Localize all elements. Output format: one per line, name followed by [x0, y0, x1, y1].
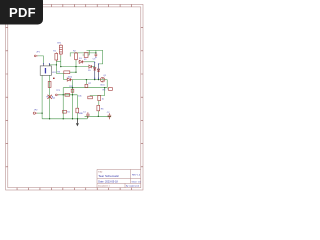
- wire box1 left stub: [83, 54, 85, 56]
- wire left bottom bus: [42, 118, 87, 120]
- wire row y94.8: [58, 94, 77, 96]
- label R1: [53, 50, 57, 52]
- svg-text:PDF: PDF: [9, 5, 36, 20]
- label TP1: [56, 90, 61, 92]
- diode D3 on pair-left: [94, 68, 96, 71]
- wire C3 drop: [95, 50, 97, 53]
- wire R2 bottom to mid bus: [75, 60, 77, 67]
- label JP1: [36, 51, 40, 53]
- wire R7 drop from base row: [85, 80, 87, 88]
- label Q1: [101, 75, 107, 87]
- label K1: [84, 59, 87, 61]
- wire left vertical from box: [41, 75, 43, 119]
- wire R1 bottom to battery bottom: [56, 61, 61, 63]
- wire right bottom bus: [85, 115, 111, 117]
- frame column ticks top/bottom: [17, 4, 132, 190]
- label R6: [101, 108, 105, 110]
- wire R3 right to mid bus junction: [70, 67, 76, 73]
- label row right: [78, 95, 82, 97]
- frame outer border: [6, 4, 143, 190]
- wire pin JP2 to left vertical: [37, 112, 42, 114]
- wire top right run: [87, 50, 103, 64]
- title block text: Title label: [98, 171, 103, 174]
- wire D1 run to pair-left top: [84, 61, 94, 63]
- svg-text:Sheet: 1/1: Sheet: 1/1: [132, 180, 142, 183]
- wire long base row through Q1: [72, 79, 107, 81]
- label Q2: [52, 97, 56, 99]
- wire box right pin up to R1: [49, 61, 63, 73]
- battery BT1: [59, 44, 62, 55]
- diode D1: [78, 60, 84, 63]
- wire bus link: [86, 116, 88, 119]
- title block text: REV cell: [132, 174, 141, 176]
- wire pin JP1 to box: [38, 56, 44, 64]
- wire vertical pair right: [98, 64, 100, 80]
- resistor R4: [76, 108, 79, 113]
- transistor Q1: [100, 77, 105, 82]
- title block frame: [97, 169, 141, 187]
- svg-text:By: wayforward: By: wayforward: [126, 185, 139, 188]
- wire middle vertical x63: [62, 88, 64, 119]
- diode D5 on mid bus: [89, 65, 92, 68]
- wire diode D5 to pair-left: [92, 66, 95, 68]
- test point pin TP1: [55, 94, 58, 96]
- label D5: [88, 70, 92, 72]
- loudspeaker box LS1: [40, 63, 51, 75]
- resistor R9 horizontal: [88, 96, 93, 99]
- diode D6 on x72.5: [71, 89, 74, 92]
- button S1: [63, 110, 67, 113]
- label C2: [107, 112, 111, 114]
- wire second left vertical from box: [49, 75, 51, 119]
- label BT1: [57, 42, 62, 44]
- junction dots: [41, 52, 105, 119]
- pin connector JP1: [34, 55, 38, 57]
- label R7: [88, 83, 92, 85]
- box K1: [84, 53, 88, 58]
- capacitor C3: [95, 54, 98, 57]
- wire between right vertical resistors: [98, 101, 100, 106]
- title block text: date row: [98, 180, 141, 183]
- frame row ticks left/right: [6, 28, 143, 167]
- value label under LS1: [53, 78, 55, 79]
- resistor R1: [55, 52, 58, 61]
- wire R8 stub: [107, 88, 108, 90]
- ground symbol: [76, 119, 79, 127]
- label R8: [103, 89, 107, 91]
- wire y87.7 long link: [63, 87, 107, 89]
- resistor R2: [75, 52, 78, 60]
- label R5b: [102, 98, 105, 100]
- label R3: [57, 72, 61, 74]
- label D2: [68, 76, 73, 78]
- wire loop into R9: [89, 95, 91, 98]
- svg-text:REV 1.0: REV 1.0: [132, 174, 141, 176]
- capacitor C2 right: [108, 113, 112, 119]
- wire R4 vertical to bus: [76, 95, 78, 119]
- label C1: [83, 112, 87, 114]
- label S1: [67, 112, 70, 114]
- wire top mid run: [70, 53, 96, 57]
- resistor R6: [97, 105, 100, 110]
- wire mid horizontal bus: [61, 66, 89, 68]
- diode D2: [66, 78, 72, 81]
- wire battery bottom down to mid bus: [60, 55, 62, 66]
- pin connector JP2: [33, 112, 37, 114]
- capacitor C1: [86, 112, 89, 118]
- wire drop to box K1 stub: [88, 50, 89, 55]
- resistor R5: [48, 81, 51, 87]
- PDF badge: [0, 0, 43, 25]
- resistor R10 on row: [65, 94, 70, 97]
- title block text: schematic name: [98, 174, 119, 178]
- wire R6 bottom to right bus: [97, 111, 99, 117]
- svg-text:Document: 1: Document: 1: [98, 185, 110, 188]
- resistor R5b vertical right: [98, 95, 101, 100]
- label JP2: [34, 110, 38, 112]
- wire R3 link down to D2: [64, 74, 67, 80]
- wire mid vertical to gnd bus: [72, 80, 74, 119]
- wire right loop down: [90, 80, 107, 96]
- label R4: [78, 113, 83, 115]
- svg-text:Date: 2023-05-18: Date: 2023-05-18: [98, 180, 118, 183]
- title block text: drawn-by row: [98, 185, 139, 188]
- pair pin dots: [94, 62, 99, 79]
- resistor R3: [64, 71, 70, 74]
- resistor R7: [85, 84, 88, 87]
- svg-text:Tear Schematic: Tear Schematic: [98, 174, 119, 178]
- label C3: [93, 57, 97, 61]
- label R2: [73, 51, 77, 53]
- label D1: [79, 58, 83, 60]
- transistor Q2: [47, 95, 53, 99]
- label LS1: [52, 72, 57, 74]
- wire vertical pair left: [94, 62, 96, 79]
- label D6: [69, 86, 74, 88]
- resistor R8 top right: [108, 88, 112, 91]
- diode D4 on pair-right: [97, 69, 99, 72]
